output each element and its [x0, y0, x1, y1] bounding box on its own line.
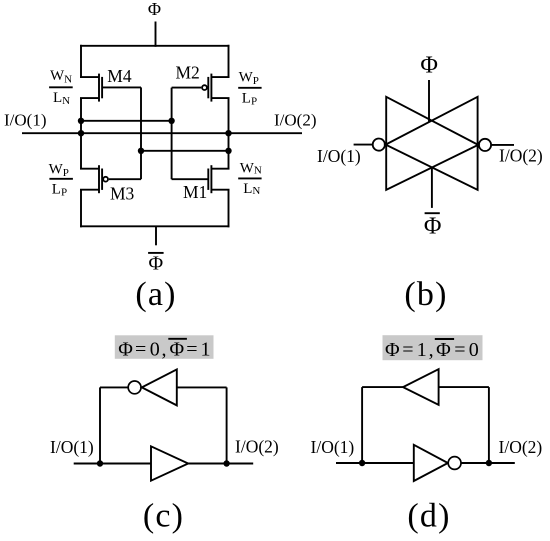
- svg-text:I/O(1): I/O(1): [50, 437, 94, 457]
- svg-text:(a): (a): [135, 276, 176, 313]
- svg-text:I/O(1): I/O(1): [311, 437, 355, 457]
- svg-text:M2: M2: [176, 63, 200, 83]
- svg-text:I/O(1): I/O(1): [4, 111, 46, 130]
- svg-text:Φ=0,Φ=1: Φ=0,Φ=1: [118, 338, 210, 360]
- svg-text:Φ: Φ: [420, 52, 438, 78]
- svg-text:Φ: Φ: [148, 0, 161, 19]
- svg-text:M1: M1: [183, 182, 207, 202]
- svg-text:Φ: Φ: [148, 252, 163, 274]
- svg-text:Φ: Φ: [424, 213, 442, 239]
- svg-text:I/O(2): I/O(2): [274, 111, 316, 130]
- svg-text:M3: M3: [110, 184, 135, 204]
- svg-text:I/O(2): I/O(2): [235, 437, 279, 457]
- svg-text:(d): (d): [407, 498, 450, 535]
- svg-text:I/O(2): I/O(2): [499, 437, 543, 457]
- svg-text:I/O(2): I/O(2): [499, 145, 543, 165]
- svg-text:Φ=1,Φ=0: Φ=1,Φ=0: [385, 339, 479, 361]
- svg-text:I/O(1): I/O(1): [317, 146, 361, 166]
- svg-text:(b): (b): [404, 276, 447, 313]
- svg-text:M4: M4: [107, 66, 132, 86]
- svg-text:(c): (c): [143, 498, 184, 535]
